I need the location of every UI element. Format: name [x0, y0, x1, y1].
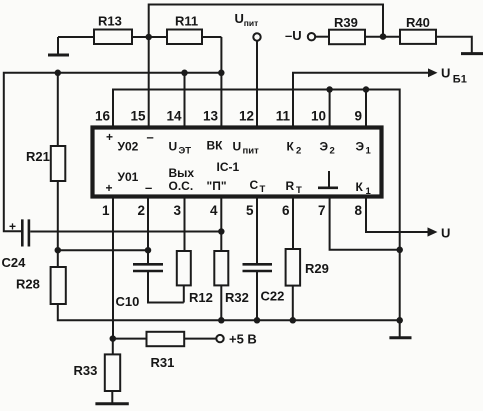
junction (R21/R28/cross wire)	[55, 247, 62, 254]
wire pin4 stub down to R32	[220, 199, 222, 252]
ground (left of R13)	[48, 37, 69, 55]
svg-text:О.С.: О.С.	[169, 179, 194, 193]
svg-text:К: К	[356, 180, 364, 194]
resistor R28	[16, 250, 66, 304]
svg-text:C22: C22	[261, 289, 285, 304]
junction (pin9 / common line)	[363, 86, 370, 93]
capacitor C24	[2, 219, 29, 270]
svg-text:U: U	[441, 226, 450, 241]
svg-text:2: 2	[137, 203, 145, 218]
wire pin14 stub	[184, 73, 186, 126]
svg-text:пит: пит	[244, 18, 259, 28]
IC label К1	[356, 180, 372, 197]
wire pin1 down to R33/R31 node	[112, 199, 114, 339]
resistor R21	[26, 73, 65, 250]
svg-text:+: +	[9, 220, 16, 234]
IC label Ст	[250, 178, 266, 195]
svg-text:R32: R32	[225, 290, 249, 305]
svg-text:ЭТ: ЭТ	[179, 146, 192, 157]
svg-text:R39: R39	[334, 15, 358, 30]
resistor R40	[400, 15, 472, 53]
wire pin11 up and right to UБ1 arrow	[293, 66, 467, 126]
svg-text:2: 2	[296, 146, 301, 157]
junction (R39/R40/top link)	[380, 33, 387, 40]
junction (bus/R21)	[55, 70, 62, 77]
svg-text:R31: R31	[151, 355, 175, 370]
wire bottom bus from R28 to right vertical	[58, 304, 400, 320]
svg-text:"П": "П"	[207, 179, 227, 193]
wire pin3 stub down to R12	[184, 199, 186, 252]
IC label У02 with polarity	[106, 130, 154, 154]
wire pin12 stub from Uпит terminal	[256, 41, 258, 126]
svg-text:R12: R12	[189, 290, 213, 305]
svg-text:U: U	[233, 140, 242, 154]
svg-text:4: 4	[210, 203, 218, 218]
svg-text:15: 15	[130, 109, 146, 124]
svg-text:2: 2	[330, 146, 335, 157]
svg-text:8: 8	[354, 203, 362, 218]
svg-text:1: 1	[102, 203, 110, 218]
resistor R39	[329, 15, 400, 44]
junction (pin7 wire / right vertical)	[396, 247, 403, 254]
junction (C24 line / pin4)	[218, 228, 225, 235]
svg-text:1: 1	[366, 186, 372, 197]
IC label Rт	[286, 179, 303, 196]
resistor R12	[177, 251, 213, 305]
svg-text:Б1: Б1	[453, 74, 467, 86]
ground (bottom right)	[389, 336, 411, 339]
resistor R29	[286, 249, 329, 320]
svg-text:–U: –U	[285, 28, 302, 43]
svg-text:Т: Т	[296, 185, 302, 196]
capacitor C22	[243, 264, 285, 320]
svg-text:1: 1	[366, 146, 372, 157]
wire pin5 stub down to C22	[256, 199, 258, 264]
junction (bus end/pin13)	[218, 70, 225, 77]
resistor R32	[214, 251, 249, 320]
wire pin16 up and across to right vertical, down to ground	[113, 90, 400, 338]
svg-text:ВК: ВК	[207, 139, 224, 153]
IC label Э1	[356, 140, 372, 157]
IC internal ground symbol (pin 7)	[318, 171, 338, 188]
svg-text:U: U	[169, 140, 178, 154]
wire pin2 stub down to C10	[147, 199, 149, 264]
svg-text:U: U	[235, 11, 244, 26]
wire top link from R13/R11 junction up over to R39/R40 junction	[149, 5, 383, 38]
junction (pin10 / common line)	[326, 86, 333, 93]
resistor R31	[113, 332, 216, 370]
svg-text:+5 В: +5 В	[229, 332, 257, 347]
svg-text:У02: У02	[118, 140, 139, 154]
wire top bus (left) with left drop to C24	[4, 73, 222, 232]
svg-text:Т: Т	[260, 184, 266, 195]
svg-text:5: 5	[246, 203, 254, 218]
svg-text:R33: R33	[74, 363, 98, 378]
junction (bus/pin14)	[181, 70, 188, 77]
ground (below R33)	[95, 402, 128, 405]
svg-text:К: К	[287, 140, 295, 154]
wire pin7 down and right to ground vertical	[330, 199, 400, 250]
resistor R13	[58, 14, 149, 45]
wire pin6 stub down to R29	[292, 199, 294, 250]
svg-text:7: 7	[318, 203, 326, 218]
ground (right of R40)	[461, 52, 483, 55]
svg-text:+: +	[106, 130, 113, 144]
svg-text:U: U	[441, 66, 450, 81]
svg-text:9: 9	[354, 109, 362, 124]
IC U1 body	[93, 128, 382, 197]
svg-text:R: R	[286, 179, 295, 193]
svg-text:10: 10	[311, 109, 326, 124]
svg-text:R28: R28	[16, 277, 40, 292]
svg-text:IC-1: IC-1	[217, 160, 240, 174]
junction (C22 / bottom bus)	[254, 317, 261, 324]
svg-text:13: 13	[203, 109, 219, 124]
wire pin13 stub	[220, 37, 222, 126]
terminal -U	[285, 28, 329, 43]
svg-text:–: –	[147, 130, 154, 145]
svg-text:R29: R29	[305, 261, 329, 276]
wire pin15 stub	[148, 37, 150, 126]
svg-text:–: –	[145, 180, 152, 195]
wire pin10 stub	[329, 90, 331, 126]
svg-text:16: 16	[95, 109, 111, 124]
wire pin8 down and right to U arrow	[366, 199, 450, 241]
terminal Uпит	[235, 11, 261, 41]
junction (pin2/C10/cross wire)	[145, 247, 152, 254]
junction (R29 / bottom bus)	[290, 317, 297, 324]
wire pin9 stub	[365, 90, 367, 126]
svg-text:пит: пит	[243, 146, 260, 157]
svg-text:+: +	[106, 181, 113, 195]
svg-text:6: 6	[282, 203, 290, 218]
svg-text:14: 14	[166, 109, 182, 124]
resistor R11	[149, 14, 222, 45]
IC label У01 with polarity	[106, 170, 153, 195]
svg-text:12: 12	[239, 109, 254, 124]
IC label Uпит	[233, 140, 260, 157]
svg-text:R21: R21	[26, 149, 50, 164]
IC label Вых О.С.	[169, 166, 195, 193]
wire R21-R28 node to pin 2 node	[58, 249, 148, 251]
IC label К2	[287, 140, 302, 157]
IC label Uэт	[169, 140, 192, 157]
svg-text:Вых: Вых	[169, 166, 195, 180]
svg-text:R13: R13	[98, 14, 122, 29]
junction (R13/R11/pin15/top link)	[145, 34, 152, 41]
resistor R33	[74, 339, 121, 403]
svg-text:C24: C24	[2, 255, 27, 270]
svg-text:C10: C10	[116, 294, 140, 309]
svg-text:R40: R40	[406, 15, 430, 30]
svg-text:11: 11	[276, 109, 291, 124]
svg-text:У01: У01	[118, 170, 139, 184]
svg-text:Э: Э	[320, 140, 329, 154]
svg-text:Э: Э	[356, 140, 365, 154]
junction (R32 / bottom bus)	[218, 317, 225, 324]
IC label Э2	[320, 140, 335, 157]
junction (bottom bus / right vertical)	[396, 317, 403, 324]
svg-text:R11: R11	[175, 14, 198, 29]
capacitor C10	[116, 264, 184, 309]
junction (pin1 / R31 / R33)	[110, 335, 117, 342]
svg-text:С: С	[250, 178, 259, 192]
svg-text:3: 3	[173, 203, 181, 218]
wire C24 right plate to pin 4	[30, 231, 221, 233]
terminal +5 В	[216, 332, 257, 347]
